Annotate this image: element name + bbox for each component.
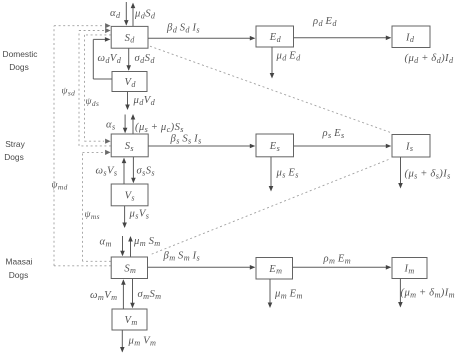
- svg-text:μd​ Ed​: μd​ Ed​: [276, 51, 302, 63]
- wire dashed diagonal from Sd corner to Is box: [150, 46, 390, 132]
- label omega-m Vm: [90, 290, 117, 302]
- wire psi-ds: dashed path from Sd left edge down to Ss left edge: [85, 35, 112, 144]
- label Stray Dogs: [4, 139, 25, 162]
- label Domestic Dogs: [3, 49, 38, 72]
- arrow alpha-m birth input into Sm top: [120, 236, 125, 256]
- svg-text:ρm​ Em​: ρm​ Em​: [323, 254, 352, 266]
- svg-text:μm​ Em​: μm​ Em​: [274, 289, 303, 301]
- svg-text:αd​: αd​: [110, 8, 121, 20]
- svg-text:(μs​ + μc​)Ss​: (μs​ + μc​)Ss​: [135, 122, 184, 134]
- label sigma-m Sm: [138, 289, 162, 301]
- wire omega-d-Vd immunity-loss Vd back to Sd: [93, 37, 112, 79]
- label mu-m Vm: [128, 336, 157, 348]
- svg-text:Stray: Stray: [5, 139, 25, 149]
- label (mu-m + delta-m) Im: [401, 288, 455, 300]
- svg-text:βs​ Ss​ Is​: βs​ Ss​ Is​: [170, 134, 202, 146]
- arrow mu-d-Vd death out of Vd: [125, 92, 130, 111]
- box Sd susceptible domestic: [111, 26, 148, 48]
- arrow (mu-s+mu-c)Ss death out of Ss top: [131, 114, 136, 134]
- label beta-d Sd Is: [166, 23, 200, 35]
- label (mu-s + mu-c) Ss: [135, 122, 184, 134]
- label (mu-d + delta-d) Id removal: [405, 53, 454, 65]
- svg-text:μs​ Es​: μs​ Es​: [276, 168, 299, 180]
- arrow omega-m-Vm immunity-loss Vm to Sm: [121, 279, 126, 309]
- arrow beta-d infection Sd to Ed: [148, 36, 255, 41]
- arrow mu-d-Sd natural death out of Sd top: [131, 3, 136, 27]
- label beta-m Sm Is: [163, 251, 201, 263]
- svg-text:ρd​ Ed​: ρd​ Ed​: [312, 16, 337, 28]
- svg-text:μs​Vs​: μs​Vs​: [129, 209, 150, 221]
- wire psi-ms: dashed path from Sm left edge up to Ss left edge: [83, 150, 112, 261]
- arrow mu-d-Ed death out of Ed: [270, 47, 275, 79]
- arrow omega-s-Vs immunity-loss Vs to Ss: [122, 158, 127, 184]
- label Maasai Dogs: [6, 257, 33, 281]
- arrow (mu-m+delta-m)Im removal out of Im: [398, 279, 403, 308]
- arrow alpha-s birth input into Ss top: [123, 115, 128, 134]
- arrow beta-s infection Ss to Es: [148, 144, 255, 149]
- svg-text:βm​ Sm​ Is​: βm​ Sm​ Is​: [163, 251, 201, 263]
- box Vs vaccinated stray: [111, 184, 148, 206]
- svg-text:σs​Ss​: σs​Ss​: [137, 166, 156, 178]
- label mu-m Em: [274, 289, 303, 301]
- arrow alpha-d birth input into Sd top: [124, 2, 129, 26]
- label psi-md: [52, 180, 68, 192]
- arrow mu-m-Em death out of Em: [268, 279, 273, 308]
- svg-text:ωm​Vm​: ωm​Vm​: [90, 290, 117, 302]
- arrow mu-s-Es death out of Es: [269, 157, 274, 192]
- svg-text:Domestic: Domestic: [3, 49, 38, 59]
- label beta-s Ss Is: [170, 134, 202, 146]
- box Em exposed maasai: [256, 258, 293, 280]
- wire psi-sd: dashed path from Ss left edge up to Sd left edge: [79, 28, 111, 146]
- wire psi-md: dashed path from Sm left edge up to Sd left edge: [54, 23, 111, 266]
- label rho-s Es: [322, 128, 345, 140]
- label rho-d Ed: [312, 16, 337, 28]
- svg-text:βd​ Sd​ Is​: βd​ Sd​ Is​: [166, 23, 200, 35]
- label sigma-s Ss: [137, 166, 156, 178]
- label sigma-d Sd: [135, 53, 156, 65]
- arrow rho-s progression Es to Is: [294, 144, 392, 149]
- label psi-ds: [86, 96, 100, 108]
- box Im infectious maasai: [392, 258, 427, 279]
- wire dashed diagonal from Is box to Sm corner: [150, 160, 389, 255]
- svg-text:Maasai: Maasai: [6, 257, 33, 267]
- box Vm vaccinated maasai: [112, 309, 147, 330]
- arrow mu-s-Vs death out of Vs: [122, 206, 127, 228]
- svg-text:ρs​ Es​: ρs​ Es​: [322, 128, 345, 140]
- svg-text:ωd​Vd​: ωd​Vd​: [98, 53, 122, 65]
- svg-text:μm​ Sm​: μm​ Sm​: [133, 236, 161, 248]
- svg-text:αs​: αs​: [106, 120, 116, 132]
- label mu-s Vs: [129, 209, 150, 221]
- arrow sigma-d-Sd vaccination Sd to Vd: [126, 48, 131, 71]
- label alpha-m: [100, 237, 112, 249]
- arrow sigma-m-Sm vaccination Sm to Vm: [130, 279, 135, 309]
- box Id infectious domestic: [392, 26, 430, 48]
- arrow beta-m infection Sm to Em: [148, 265, 256, 270]
- svg-text:μd​Vd​: μd​Vd​: [133, 95, 156, 107]
- svg-text:ψmd​: ψmd​: [52, 180, 68, 192]
- svg-text:Dogs: Dogs: [9, 270, 29, 280]
- label mu-d Sd: [134, 9, 156, 21]
- label mu-m Sm: [133, 236, 161, 248]
- svg-text:Dogs: Dogs: [4, 152, 24, 162]
- svg-text:αm​: αm​: [100, 237, 112, 249]
- svg-text:ψsd​: ψsd​: [62, 86, 76, 98]
- label psi-sd: [62, 86, 76, 98]
- svg-text:σm​Sm​: σm​Sm​: [138, 289, 162, 301]
- svg-text:(μm​ + δm​)Im​: (μm​ + δm​)Im​: [401, 288, 455, 300]
- box Vd vaccinated domestic: [112, 72, 147, 92]
- label rho-m Em: [323, 254, 352, 266]
- label mu-d Vd: [133, 95, 156, 107]
- arrow mu-m-Vm death out of Vm: [120, 330, 125, 353]
- svg-text:Dogs: Dogs: [9, 62, 29, 72]
- label mu-d Ed: [276, 51, 302, 63]
- label psi-ms: [85, 209, 100, 221]
- svg-text:ψds​: ψds​: [86, 96, 100, 108]
- svg-text:μm​ Vm​: μm​ Vm​: [128, 336, 157, 348]
- svg-text:ωs​Vs​: ωs​Vs​: [96, 166, 118, 178]
- svg-text:μd​Sd​: μd​Sd​: [134, 9, 156, 21]
- box Ed exposed domestic: [256, 26, 294, 47]
- svg-text:ψms​: ψms​: [85, 209, 100, 221]
- label mu-s Es: [276, 168, 299, 180]
- arrow sigma-s-Ss vaccination Ss to Vs: [131, 157, 136, 184]
- box Ss susceptible stray: [111, 134, 148, 157]
- arrow mu-m-Sm death out of Sm top: [128, 236, 133, 257]
- label alpha-s: [106, 120, 116, 132]
- svg-text:σd​Sd​: σd​Sd​: [135, 53, 156, 65]
- arrow (mu-s+delta-s)Is removal out of Is: [398, 157, 403, 189]
- box Sm susceptible maasai: [111, 257, 147, 279]
- box Is infectious stray: [392, 135, 430, 158]
- box Es exposed stray: [256, 134, 294, 157]
- label alpha-d: [110, 8, 121, 20]
- svg-text:(μs​ + δs​)Is​: (μs​ + δs​)Is​: [405, 169, 451, 181]
- label (mu-s + delta-s) Is: [405, 169, 451, 181]
- svg-text:(μd​ + δd​)Id​: (μd​ + δd​)Id​: [405, 53, 454, 65]
- label omega-s Vs: [96, 166, 118, 178]
- arrow rho-d progression Ed to Id: [294, 36, 392, 41]
- arrow rho-m progression Em to Im: [293, 265, 392, 270]
- label omega-d Vd: [98, 53, 122, 65]
